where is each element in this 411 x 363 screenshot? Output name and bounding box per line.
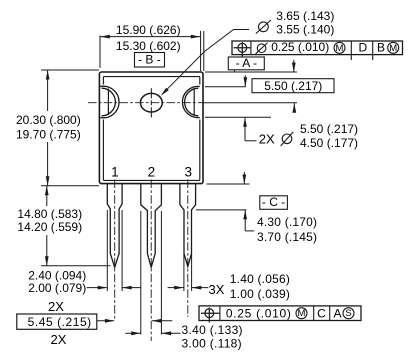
svg-text:15.90 (.626): 15.90 (.626) [116, 23, 181, 37]
svg-text:M: M [298, 308, 306, 319]
svg-text:5.50 (.217): 5.50 (.217) [264, 79, 322, 93]
svg-text:1: 1 [111, 165, 119, 180]
svg-text:3.70 (.145): 3.70 (.145) [257, 230, 317, 244]
svg-text:3.65 (.143): 3.65 (.143) [276, 9, 334, 23]
svg-text:3.55 (.140): 3.55 (.140) [276, 23, 334, 37]
svg-text:15.30 (.602): 15.30 (.602) [116, 39, 181, 53]
svg-text:5.50 (.217): 5.50 (.217) [300, 122, 358, 136]
svg-text:M: M [336, 43, 344, 54]
svg-text:14.20 (.559): 14.20 (.559) [17, 220, 82, 234]
svg-text:- A -: - A - [236, 56, 257, 70]
svg-text:A: A [333, 306, 341, 320]
svg-text:5.45 (.215): 5.45 (.215) [28, 315, 92, 329]
svg-text:1.00 (.039): 1.00 (.039) [230, 287, 290, 301]
svg-text:D: D [358, 41, 367, 55]
svg-text:0.25 (.010): 0.25 (.010) [271, 40, 329, 54]
svg-text:S: S [345, 308, 351, 319]
svg-text:M: M [389, 43, 397, 54]
svg-text:19.70 (.775): 19.70 (.775) [16, 127, 81, 141]
svg-text:0.25 (.010): 0.25 (.010) [226, 307, 292, 321]
svg-text:4.50 (.177): 4.50 (.177) [300, 136, 358, 150]
svg-text:20.30 (.800): 20.30 (.800) [16, 113, 81, 127]
svg-text:3: 3 [185, 165, 193, 180]
svg-text:2.00 (.079): 2.00 (.079) [28, 281, 86, 295]
svg-text:2X: 2X [48, 299, 64, 314]
svg-text:- C -: - C - [262, 195, 285, 209]
svg-text:4.30 (.170): 4.30 (.170) [257, 215, 317, 229]
svg-text:3.40 (.133): 3.40 (.133) [182, 323, 243, 337]
svg-text:2X: 2X [51, 332, 67, 347]
svg-text:2: 2 [148, 165, 156, 180]
svg-text:3X: 3X [209, 282, 225, 297]
svg-text:3.00 (.118): 3.00 (.118) [182, 337, 242, 351]
svg-text:1.40 (.056): 1.40 (.056) [230, 272, 290, 286]
svg-text:- B -: - B - [138, 52, 161, 66]
svg-text:14.80 (.583): 14.80 (.583) [17, 207, 82, 221]
svg-text:2X: 2X [259, 132, 275, 147]
svg-text:B: B [377, 41, 385, 55]
svg-text:C: C [317, 306, 326, 320]
